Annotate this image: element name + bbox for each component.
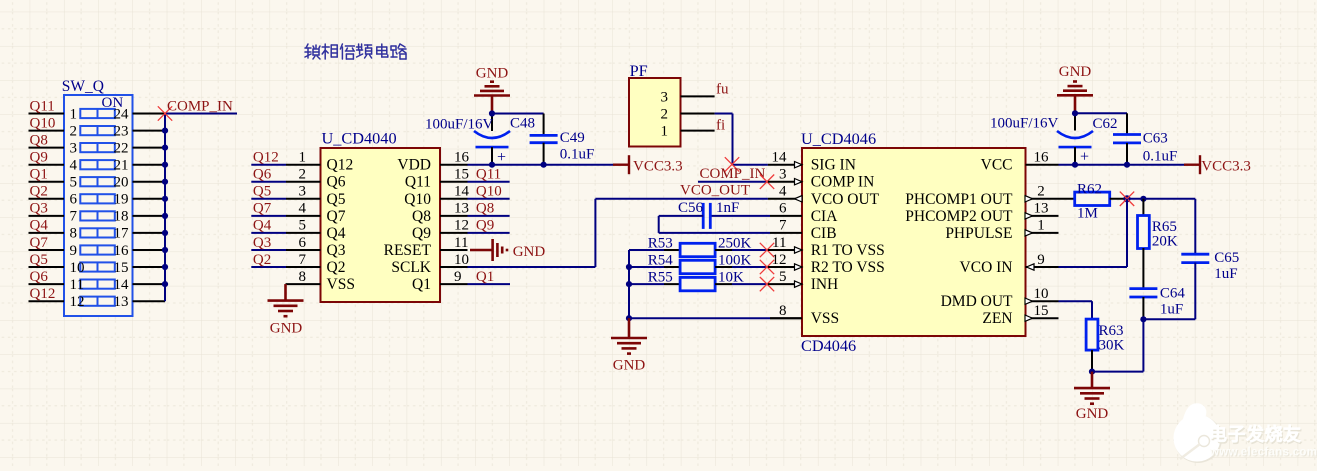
svg-text:Q2: Q2	[253, 252, 271, 268]
svg-text:0.1uF: 0.1uF	[560, 146, 595, 162]
junction R54	[626, 264, 632, 270]
capacitor C63 0.1uF	[1113, 113, 1177, 164]
capacitor C64 1uF	[1129, 248, 1185, 319]
svg-text:15: 15	[1034, 303, 1049, 319]
svg-text:PHCOMP1 OUT: PHCOMP1 OUT	[905, 191, 1013, 208]
wire SW_Q pin 23 to bus	[133, 130, 166, 132]
svg-text:INH: INH	[811, 276, 839, 293]
svg-text:Q8: Q8	[476, 201, 494, 217]
svg-text:10: 10	[454, 252, 469, 268]
resistor R62 1M	[1059, 182, 1144, 222]
svg-text:Q10: Q10	[404, 191, 431, 208]
pin 10 DMD OUT stub	[1025, 298, 1059, 304]
svg-text:U_CD4046: U_CD4046	[801, 129, 876, 148]
svg-text:7: 7	[299, 252, 307, 268]
svg-text:12: 12	[70, 294, 85, 310]
svg-text:14: 14	[772, 150, 788, 166]
svg-text:R2 TO VSS: R2 TO VSS	[811, 259, 885, 276]
svg-text:C63: C63	[1143, 131, 1168, 147]
wire / net label Q2 (CD4040 pin 7)	[251, 252, 320, 268]
resistor R54 100K	[629, 252, 768, 273]
capacitor C56 1nF	[659, 200, 770, 233]
wire SW_Q pin 16 to bus	[133, 249, 166, 251]
capacitor C49 0.1uF	[530, 114, 595, 165]
svg-text:Q10: Q10	[476, 184, 502, 200]
svg-text:16: 16	[114, 243, 130, 259]
svg-text:Q9: Q9	[412, 225, 431, 242]
wire VCC rail (CD4046 pin 16)	[1059, 164, 1185, 166]
svg-text:VCC: VCC	[981, 157, 1013, 174]
wire COMP_IN bus	[164, 114, 166, 302]
svg-text:Q6: Q6	[30, 269, 49, 285]
svg-text:Q3: Q3	[30, 201, 48, 217]
wire SW_Q pin 24 to bus	[133, 113, 166, 115]
wire / net label Q11 (CD4040 pin 15)	[440, 167, 510, 183]
wire to C65	[1143, 199, 1195, 254]
svg-text:2: 2	[299, 167, 307, 183]
wire / net label Q7 (CD4040 pin 4)	[251, 201, 320, 217]
junction R62 out	[1123, 195, 1130, 202]
watermark logo (decorative)	[1174, 403, 1317, 463]
svg-text:R1 TO VSS: R1 TO VSS	[811, 242, 885, 259]
wire / net label Q10 (SW_Q pin 2)	[29, 115, 65, 131]
resistor R53 250K	[629, 235, 768, 256]
svg-text:Q5: Q5	[30, 252, 48, 268]
wire SW_Q pin 18 to bus	[133, 215, 166, 217]
wire VCO IN feedback	[1059, 199, 1128, 267]
svg-text:Q8: Q8	[30, 132, 48, 148]
svg-text:12: 12	[772, 252, 787, 268]
svg-text:Q9: Q9	[30, 150, 48, 166]
wire / net label Q5 (SW_Q pin 10)	[29, 252, 65, 268]
junction C62/rail	[1072, 162, 1078, 168]
svg-text:10: 10	[70, 260, 85, 276]
svg-text:Q12: Q12	[327, 157, 354, 174]
svg-text:Q6: Q6	[253, 167, 272, 183]
wire SW_Q pin 15 to bus	[133, 266, 166, 268]
pin 8 VSS stub	[770, 317, 802, 319]
svg-text:U_CD4040: U_CD4040	[322, 129, 397, 148]
junction R55	[626, 281, 632, 287]
svg-text:3: 3	[661, 89, 669, 105]
svg-text:3: 3	[779, 167, 787, 183]
svg-text:fu: fu	[716, 82, 729, 98]
svg-text:C49: C49	[560, 130, 585, 146]
svg-text:4: 4	[70, 158, 78, 174]
svg-text:R54: R54	[648, 252, 674, 268]
node COMP_IN end (no-ERC cross)	[760, 175, 774, 189]
capacitor C62 100uF/16V	[990, 116, 1118, 166]
wire SW_Q pin 22 to bus	[133, 147, 166, 149]
svg-text:8: 8	[779, 303, 787, 319]
op-amp/IC U CD4046	[772, 129, 1050, 355]
svg-text:SW_Q: SW_Q	[62, 78, 104, 95]
wire / net label Q1 (CD4040 pin 9)	[440, 269, 510, 285]
svg-text:SIG IN: SIG IN	[811, 157, 856, 174]
svg-text:Q6: Q6	[327, 174, 346, 191]
wire C64/C65 bottom	[1143, 319, 1195, 371]
svg-text:1: 1	[1037, 218, 1045, 234]
wire resistor bus to VSS	[629, 250, 802, 318]
junctions on bus	[162, 128, 168, 288]
power port VCC3.3 (right)	[1184, 155, 1251, 174]
svg-text:SCLK: SCLK	[391, 259, 431, 276]
junction R63 bottom	[1089, 369, 1095, 375]
junction C48/rail	[489, 162, 495, 168]
svg-text:Q8: Q8	[412, 208, 431, 225]
svg-text:GND: GND	[513, 244, 546, 260]
pin 7 CIB stub	[770, 232, 802, 234]
wire / net label Q4 (SW_Q pin 8)	[29, 218, 65, 234]
svg-text:9: 9	[70, 243, 78, 259]
svg-text:RESET: RESET	[384, 242, 432, 259]
svg-text:1: 1	[661, 124, 669, 140]
node COMP_IN (no-ERC cross)	[158, 106, 172, 120]
svg-text:21: 21	[114, 158, 129, 174]
capacitor C48 100uF/16V	[425, 116, 535, 167]
junction C62 top	[1072, 110, 1078, 116]
svg-text:C64: C64	[1160, 286, 1186, 302]
svg-text:PHPULSE: PHPULSE	[945, 225, 1012, 242]
svg-text:Q7: Q7	[30, 235, 49, 251]
svg-text:GND: GND	[1059, 64, 1092, 80]
pin 1 PHPULSE stub	[1025, 230, 1059, 236]
svg-text:R55: R55	[648, 270, 673, 286]
wire / net label Q6 (SW_Q pin 11)	[29, 269, 65, 285]
svg-text:GND: GND	[270, 321, 303, 337]
svg-text:11: 11	[454, 235, 468, 251]
svg-text:VCO OUT: VCO OUT	[811, 191, 880, 208]
net label VCO_OUT (CD4046 pin 4)	[595, 183, 768, 199]
pin 16 VCC stub	[1026, 164, 1059, 166]
svg-text:ZEN: ZEN	[982, 310, 1012, 327]
junction C63/rail	[1124, 162, 1130, 168]
op-amp/IC U CD4040	[299, 129, 470, 303]
svg-text:100uF/16V: 100uF/16V	[990, 116, 1059, 132]
svg-text:Q11: Q11	[30, 98, 55, 114]
svg-text:VCC3.3: VCC3.3	[1201, 159, 1251, 175]
wire / net label Q8 (CD4040 pin 13)	[440, 201, 510, 217]
wire R63 bottom	[1092, 371, 1143, 373]
node SIG IN corner (no-ERC cross)	[725, 157, 739, 171]
svg-text:fi: fi	[716, 118, 725, 134]
svg-text:Q1: Q1	[476, 269, 494, 285]
wire VCC rail (CD4040 pin 16)	[440, 164, 613, 166]
wire C48 top junction	[492, 114, 544, 132]
svg-text:CIA: CIA	[811, 208, 839, 225]
svg-text:Q9: Q9	[476, 218, 494, 234]
wire / net label Q6 (CD4040 pin 2)	[251, 167, 320, 183]
wire PF pin 1 (fi)	[681, 130, 715, 132]
svg-text:GND: GND	[476, 66, 509, 82]
svg-text:Q10: Q10	[30, 115, 56, 131]
svg-text:16: 16	[454, 150, 470, 166]
node no-ERC cross pin	[760, 243, 774, 257]
ground GND (CD4040 VSS)	[268, 284, 304, 336]
wire SW_Q pin 13 to bus	[133, 300, 166, 302]
svg-text:1: 1	[299, 150, 307, 166]
svg-text:Q2: Q2	[327, 259, 346, 276]
svg-text:VCO IN: VCO IN	[960, 259, 1013, 276]
svg-text:2: 2	[661, 107, 669, 123]
svg-text:COMP IN: COMP IN	[811, 174, 875, 191]
pin 11 R1 TO VSS stub	[768, 247, 802, 253]
svg-text:13: 13	[114, 294, 129, 310]
svg-text:17: 17	[114, 226, 130, 242]
svg-text:12: 12	[454, 218, 469, 234]
svg-text:VCO_OUT: VCO_OUT	[680, 183, 750, 199]
capacitor C65 1uF	[1181, 250, 1239, 319]
svg-text:1M: 1M	[1077, 206, 1098, 222]
wire C62 top junction	[1075, 113, 1127, 130]
svg-text:8: 8	[299, 269, 307, 285]
wire PF pin 2 to SIG IN	[681, 114, 768, 165]
svg-text:15: 15	[454, 167, 469, 183]
svg-text:19: 19	[114, 192, 129, 208]
svg-text:6: 6	[299, 235, 307, 251]
svg-text:Q12: Q12	[30, 286, 56, 302]
svg-text:R53: R53	[648, 235, 673, 251]
svg-text:0.1uF: 0.1uF	[1143, 149, 1178, 165]
wire / net label Q8 (SW_Q pin 3)	[29, 132, 65, 148]
svg-text:Q4: Q4	[327, 225, 346, 242]
svg-text:Q7: Q7	[253, 201, 272, 217]
svg-text:PF: PF	[630, 61, 648, 80]
svg-text:Q3: Q3	[327, 242, 346, 259]
wire CD4040 pin 11 (RESET)	[440, 249, 468, 251]
svg-text:PHCOMP2 OUT: PHCOMP2 OUT	[905, 208, 1013, 225]
svg-text:C56: C56	[678, 200, 704, 216]
pin 4 VCO OUT stub	[768, 196, 802, 202]
svg-text:VDD: VDD	[397, 157, 431, 174]
svg-text:+: +	[497, 149, 506, 166]
net label COMP_IN (CD4046 pin 3)	[698, 166, 768, 182]
pin 14 SIG IN stub	[768, 162, 802, 168]
svg-text:Q4: Q4	[30, 218, 49, 234]
pin 6 CIA stub	[770, 215, 802, 217]
svg-text:13: 13	[1034, 201, 1049, 217]
svg-text:8: 8	[70, 226, 78, 242]
svg-text:14: 14	[454, 184, 470, 200]
pin 2 PHCOMP1 OUT stub	[1025, 196, 1059, 202]
svg-text:11: 11	[70, 277, 84, 293]
svg-text:10K: 10K	[718, 270, 744, 286]
svg-text:Q4: Q4	[253, 218, 272, 234]
svg-text:Q11: Q11	[405, 174, 431, 191]
svg-text:Q11: Q11	[476, 167, 501, 183]
wire SW_Q pin 19 to bus	[133, 198, 166, 200]
wire SW_Q pin 20 to bus	[133, 181, 166, 183]
wire / net label Q7 (SW_Q pin 9)	[29, 235, 65, 251]
wire DMD OUT to R63	[1059, 301, 1093, 319]
svg-text:Q1: Q1	[30, 167, 48, 183]
svg-text:20: 20	[114, 175, 129, 191]
svg-text:Q5: Q5	[253, 184, 271, 200]
wire CD4040 pin 8 (VSS)	[286, 283, 321, 285]
dip switch SW_Q	[62, 78, 133, 316]
wire SW_Q pin 21 to bus	[133, 164, 166, 166]
pin 12 R2 TO VSS stub	[768, 264, 802, 270]
svg-text:4: 4	[299, 201, 307, 217]
svg-text:CIB: CIB	[811, 225, 837, 242]
resistor R63 30K	[1086, 319, 1124, 372]
ground GND (bottom right)	[1074, 372, 1110, 422]
svg-text:9: 9	[454, 269, 462, 285]
svg-text:100K: 100K	[718, 252, 752, 268]
wire SW_Q pin 14 to bus	[133, 283, 166, 285]
wire / net label Q3 (SW_Q pin 7)	[29, 201, 65, 217]
svg-text:16: 16	[1034, 150, 1050, 166]
ground GND (CD4040 RESET)	[470, 239, 545, 261]
wire SCLK to VCO OUT	[440, 199, 595, 267]
svg-text:2: 2	[1037, 184, 1045, 200]
svg-text:6: 6	[779, 201, 787, 217]
svg-text:GND: GND	[1076, 406, 1109, 422]
junction C49/rail	[541, 162, 547, 168]
svg-text:5: 5	[299, 218, 307, 234]
svg-text:18: 18	[114, 209, 129, 225]
svg-text:Q5: Q5	[327, 191, 346, 208]
ground GND (top left)	[474, 66, 510, 114]
svg-text:7: 7	[70, 209, 78, 225]
pin 9 VCO IN stub	[1026, 264, 1059, 270]
svg-text:COMP_IN: COMP_IN	[167, 98, 233, 114]
pin 13 PHCOMP2 OUT stub	[1025, 213, 1059, 219]
svg-text:24: 24	[114, 106, 130, 122]
svg-text:R62: R62	[1077, 182, 1102, 198]
wire / net label Q11 (SW_Q pin 1)	[29, 98, 65, 114]
wire / net label Q10 (CD4040 pin 14)	[440, 184, 510, 200]
svg-text:11: 11	[772, 235, 786, 251]
svg-text:14: 14	[114, 277, 130, 293]
svg-text:100uF/16V: 100uF/16V	[425, 117, 494, 133]
svg-text:GND: GND	[613, 358, 646, 374]
svg-text:1uF: 1uF	[1214, 266, 1237, 282]
svg-text:VSS: VSS	[811, 310, 839, 327]
svg-text:7: 7	[779, 218, 787, 234]
wire / net label Q5 (CD4040 pin 3)	[251, 184, 320, 200]
wire / net label Q1 (SW_Q pin 5)	[29, 167, 65, 183]
node no-ERC cross pin	[760, 277, 774, 291]
junction C64 bottom	[1140, 316, 1146, 322]
svg-text:Q2: Q2	[30, 184, 48, 200]
svg-text:9: 9	[1037, 252, 1045, 268]
resistor R55 10K	[629, 270, 768, 291]
svg-text:22: 22	[114, 140, 129, 156]
svg-text:电子发烧友: 电子发烧友	[1209, 424, 1302, 445]
svg-text:23: 23	[114, 123, 129, 139]
svg-text:Q7: Q7	[327, 208, 346, 225]
svg-text:2: 2	[70, 123, 78, 139]
svg-text:3: 3	[299, 184, 307, 200]
svg-text:20K: 20K	[1152, 234, 1178, 250]
svg-text:1nF: 1nF	[716, 200, 739, 216]
svg-text:3: 3	[70, 140, 78, 156]
junction C48 top	[489, 110, 495, 116]
wire / net label Q4 (CD4040 pin 5)	[251, 218, 320, 234]
junction R65 branch	[1140, 196, 1146, 202]
wire / net label Q2 (SW_Q pin 6)	[29, 184, 65, 200]
node R62 out (no-ERC cross)	[1120, 192, 1134, 206]
wire / net label Q9 (CD4040 pin 12)	[440, 218, 510, 234]
wire / net label Q3 (CD4040 pin 6)	[251, 235, 320, 251]
svg-text:1: 1	[70, 106, 78, 122]
wire COMP_IN	[165, 113, 237, 115]
svg-text:VCC3.3: VCC3.3	[633, 159, 683, 175]
svg-text:30K: 30K	[1099, 338, 1125, 354]
svg-text:CD4046: CD4046	[801, 336, 856, 355]
svg-text:DMD OUT: DMD OUT	[941, 293, 1013, 310]
pin 5 INH stub	[768, 281, 802, 287]
svg-text:COMP_IN: COMP_IN	[700, 166, 766, 182]
svg-text:1uF: 1uF	[1160, 302, 1183, 318]
wire SW_Q pin 17 to bus	[133, 232, 166, 234]
ground GND (resistor bus)	[611, 318, 647, 373]
svg-text:6: 6	[70, 192, 78, 208]
power port VCC3.3 (left)	[613, 155, 683, 174]
svg-text:www.elecfans.com: www.elecfans.com	[1209, 447, 1317, 459]
node no-ERC cross pin	[760, 260, 774, 274]
pin 3 COMP IN stub	[768, 179, 802, 185]
junction VSS	[626, 315, 632, 321]
svg-text:10: 10	[1034, 286, 1049, 302]
ground GND (top right)	[1057, 64, 1093, 113]
svg-text:4: 4	[779, 184, 787, 200]
wire / net label Q9 (SW_Q pin 4)	[29, 150, 65, 166]
pin 15 ZEN stub	[1025, 315, 1059, 321]
svg-text:+: +	[1080, 149, 1089, 166]
svg-text:VSS: VSS	[327, 276, 355, 293]
resistor R65 20K	[1138, 199, 1178, 250]
wire PF pin 3 (fu)	[681, 95, 715, 97]
svg-text:Q1: Q1	[412, 276, 431, 293]
svg-text:C48: C48	[510, 116, 535, 132]
svg-text:5: 5	[779, 269, 787, 285]
schematic title 锁相倍频电路	[305, 44, 406, 59]
connector PF	[629, 61, 681, 147]
svg-text:Q3: Q3	[253, 235, 271, 251]
wire / net label Q12 (SW_Q pin 12)	[29, 286, 65, 302]
svg-text:C65: C65	[1214, 250, 1239, 266]
svg-text:15: 15	[114, 260, 129, 276]
svg-text:C62: C62	[1093, 116, 1118, 132]
svg-text:250K: 250K	[718, 235, 752, 251]
wire / net label Q12 (CD4040 pin 1)	[251, 150, 320, 166]
svg-text:5: 5	[70, 175, 78, 191]
svg-text:Q12: Q12	[253, 150, 279, 166]
svg-text:13: 13	[454, 201, 469, 217]
